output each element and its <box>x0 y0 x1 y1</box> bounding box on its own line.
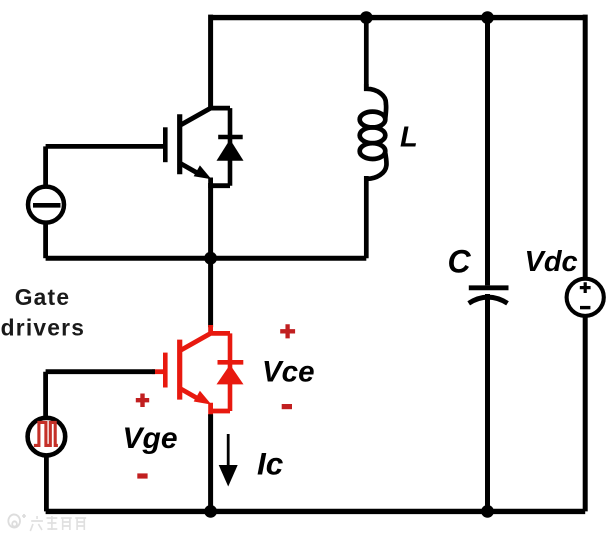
svg-text:drivers: drivers <box>1 315 85 341</box>
wire Q2 gate lead (black part) <box>46 369 155 374</box>
wire Q2 gate lead red tip <box>152 369 163 374</box>
wire Q1 emitter corner <box>211 178 230 186</box>
diode D1 (antiparallel, black) <box>217 108 244 186</box>
svg-text:Vge: Vge <box>123 422 178 455</box>
wire mid rail <box>46 256 367 261</box>
source Vdc branch <box>567 15 604 512</box>
svg-text:Vdc: Vdc <box>525 246 578 278</box>
igbt Q1 emitter with arrow <box>179 162 212 179</box>
svg-text:Ic: Ic <box>257 446 284 482</box>
diode D2 (antiparallel, red) <box>217 333 244 411</box>
wire top rail <box>211 15 586 20</box>
source V1 gate driver (top-left) <box>28 146 64 258</box>
node bottom-emitter junction <box>204 505 217 518</box>
igbt Q1 (top, black) collector branch <box>180 108 230 125</box>
wire Q2 emitter corner <box>211 403 230 416</box>
igbt Q2 (bottom, red) collector branch <box>180 325 230 351</box>
inductor L <box>360 15 387 259</box>
wire top-left drop to Q1 collector <box>208 15 213 109</box>
node top-inductor junction <box>360 11 373 24</box>
label plus Vce <box>280 324 295 338</box>
wire bottom rail <box>46 509 586 514</box>
igbt Q2 body bar <box>177 340 182 400</box>
svg-text:Vce: Vce <box>262 356 315 389</box>
wire Q2 emitter down to bottom rail <box>208 414 213 511</box>
source V2 pulse gate driver (bottom-left) <box>28 372 66 512</box>
igbt Q2 emitter with arrow <box>179 388 212 405</box>
node top-capacitor junction <box>481 11 494 24</box>
igbt Q2 gate bar <box>163 353 168 388</box>
node mid junction <box>204 252 217 265</box>
node bottom-capacitor junction <box>481 505 494 518</box>
igbt Q1 body bar <box>177 114 182 174</box>
watermark logo <box>8 514 87 531</box>
svg-text:C: C <box>448 244 472 280</box>
wire Q1 emitter to mid node <box>208 183 213 327</box>
arrow Ic current <box>219 434 238 487</box>
svg-text:L: L <box>400 122 418 154</box>
label minus Vce <box>282 404 292 409</box>
wire Q1 gate lead <box>46 144 164 149</box>
capacitor C branch <box>469 15 509 512</box>
label plus Vge <box>136 394 149 408</box>
igbt Q1 gate bar <box>163 127 168 162</box>
label minus Vge <box>137 473 147 478</box>
svg-text:Gate: Gate <box>15 284 70 310</box>
